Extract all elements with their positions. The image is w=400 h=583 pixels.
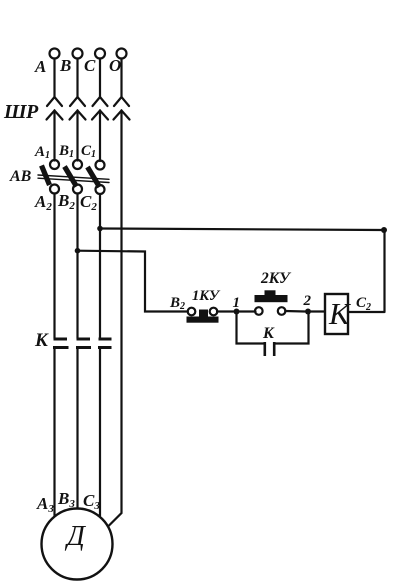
svg-text:О: О: [109, 56, 121, 75]
svg-text:К: К: [34, 330, 49, 351]
svg-text:1: 1: [233, 295, 241, 311]
svg-text:Д: Д: [64, 521, 87, 552]
svg-text:К: К: [328, 296, 352, 331]
svg-text:В: В: [59, 56, 71, 75]
svg-text:2КУ: 2КУ: [260, 270, 292, 287]
svg-text:1КУ: 1КУ: [192, 288, 221, 304]
svg-text:К: К: [262, 325, 275, 342]
svg-text:2: 2: [303, 293, 312, 309]
svg-text:ШР: ШР: [3, 101, 39, 123]
svg-text:АВ: АВ: [9, 168, 32, 185]
svg-text:С: С: [84, 56, 96, 75]
svg-text:А: А: [34, 57, 46, 76]
